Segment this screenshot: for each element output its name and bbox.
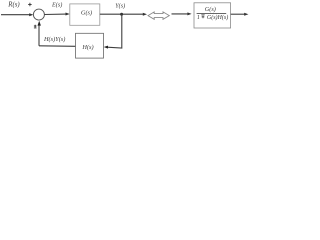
svg-text:G(s)H(s): G(s)H(s) (207, 14, 228, 21)
svg-text:H(s): H(s) (81, 44, 93, 51)
svg-text:G(s): G(s) (205, 6, 216, 13)
svg-text:E(s): E(s) (51, 2, 62, 9)
svg-text:R(s): R(s) (7, 1, 20, 8)
svg-text:1: 1 (197, 15, 200, 21)
svg-text:Y(s): Y(s) (115, 3, 125, 10)
svg-text:H(s)Y(s): H(s)Y(s) (43, 36, 65, 43)
svg-text:G(s): G(s) (81, 9, 92, 16)
